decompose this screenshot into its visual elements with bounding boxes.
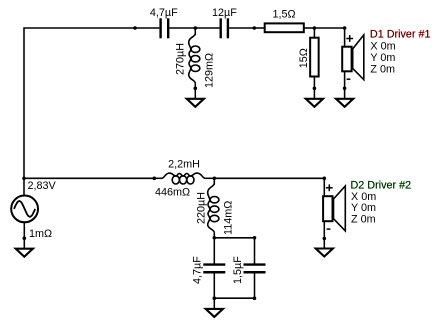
svg-text:1,5µF: 1,5µF [232,256,244,284]
inductor L3 220µH shunt [208,183,219,232]
junction dot bottom rail right [253,296,257,300]
junction dot above ground [313,87,317,91]
wire stub down to L3 [213,178,215,184]
svg-text:12µF: 12µF [212,7,237,19]
junction dot above ground [323,237,327,241]
node A junction dot [194,26,198,30]
wire D2 top lead [323,178,325,196]
svg-text:X 0m: X 0m [370,41,395,53]
wire L3 bottom lead [213,233,215,238]
ground under D2 [316,249,333,257]
wire C3 top lead [213,238,215,264]
speaker D1 [342,35,364,80]
svg-text:D1 Driver #1: D1 Driver #1 [370,29,431,41]
node dot at D1 top [343,26,347,30]
svg-text:1mΩ: 1mΩ [29,228,52,240]
node B junction dot [313,26,317,30]
wire bottom branch left [24,177,154,179]
ground under D1 [336,99,353,107]
wire C1 left lead [135,27,159,29]
wire cap top rail [214,237,254,239]
wire D1 bottom lead [344,72,346,102]
ground under R2 [306,99,323,107]
svg-text:Y 0m: Y 0m [351,202,376,214]
minus mark D2 [327,228,331,230]
junction dot source top [22,177,26,181]
resistor R1 1,5Ω [265,23,304,32]
ground under source [16,249,33,257]
node dot at D2 top [323,177,327,181]
svg-text:270µH: 270µH [175,43,187,75]
inductor L1 2,2mH [162,173,206,184]
svg-text:X 0m: X 0m [351,191,376,203]
junction dot cap rail right [253,236,257,240]
capacitor C1 4,7µF [161,18,169,38]
svg-text:4,7µF: 4,7µF [150,7,178,19]
ground under caps [206,309,223,317]
capacitor C3 4,7µF [203,265,225,273]
node dot at wire end before C1 [133,26,137,30]
wire stub to ground [213,298,215,311]
wire C1 right lead [169,27,195,29]
voltage source V1 [11,196,38,223]
wire source top lead [23,178,25,196]
wire C4 bottom lead [254,273,256,298]
svg-text:Z 0m: Z 0m [351,213,376,225]
wire bottom branch right [214,177,324,179]
wire stub down to L2 [194,28,196,35]
junction dot above ground [343,87,347,91]
speaker D2 [323,186,345,231]
wire C3 bottom lead [213,273,215,298]
wire to D1 [314,27,344,29]
plus mark D2 [326,184,333,191]
svg-text:D2 Driver #2: D2 Driver #2 [351,180,412,192]
capacitor C2 12µF [221,18,228,38]
wire source bottom lead [23,222,25,252]
node dot before L1 [153,177,157,181]
wire stub down to R2 [313,28,315,38]
node C junction dot [213,177,217,181]
svg-text:15Ω: 15Ω [298,48,310,68]
wire top-left run from corner [24,28,135,178]
capacitor C4 1,5µF [244,265,266,273]
wire R2 bottom lead [313,77,315,102]
wire D2 bottom lead [323,221,325,251]
svg-text:1,5Ω: 1,5Ω [272,9,295,21]
svg-text:129mΩ: 129mΩ [204,53,216,88]
junction dot bottom rail left [213,296,217,300]
svg-text:114mΩ: 114mΩ [223,201,235,235]
wire L1 right lead [205,177,214,179]
svg-text:220µH: 220µH [196,192,208,224]
svg-text:Y 0m: Y 0m [370,52,395,64]
wire R1 right lead [304,27,315,29]
svg-text:2,83V: 2,83V [28,180,57,192]
wire L2 bottom lead [194,83,196,101]
wire L1 left lead [154,177,162,179]
svg-text:Z 0m: Z 0m [370,63,395,75]
junction dot above ground [23,236,27,240]
plus mark D1 [346,35,353,42]
wire C2 left lead [195,27,219,29]
wire C4 top lead [254,238,256,264]
svg-text:446mΩ: 446mΩ [155,186,190,198]
wire C2 right lead [229,27,254,29]
wire cap bottom rail [214,297,254,299]
resistor R2 15Ω shunt [310,38,319,77]
junction dot above ground [194,87,198,91]
svg-text:2,2mH: 2,2mH [168,158,200,170]
node dot before R1 [253,26,257,30]
wire R1 left lead [254,27,265,29]
minus mark D1 [347,78,351,80]
ground under L2 [187,99,204,107]
svg-text:4,7µF: 4,7µF [191,256,203,284]
wire D1 top lead [344,28,346,47]
inductor L2 270µH shunt [189,34,200,84]
junction dot cap rail left [213,236,217,240]
